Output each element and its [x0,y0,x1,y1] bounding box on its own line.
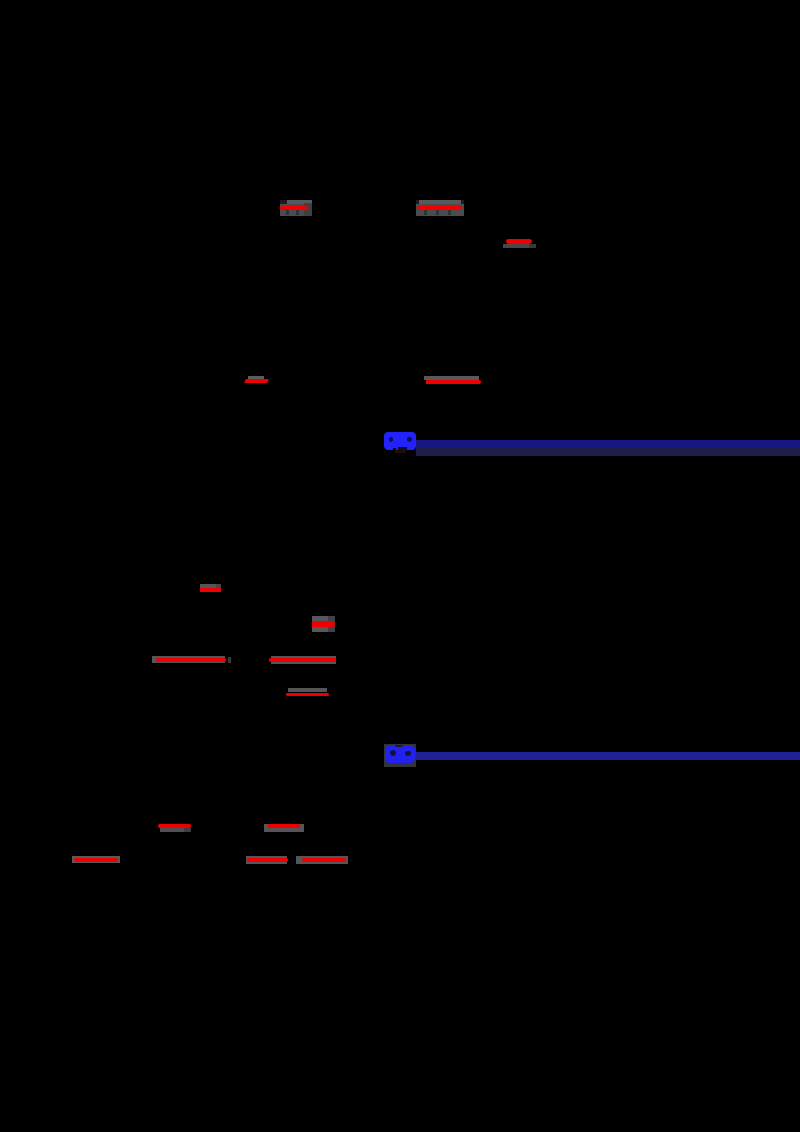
cancel line K1 [74,858,118,862]
link band D bright part [416,440,800,448]
highlight box H [288,688,328,693]
highlight box B [503,244,529,247]
cancel line K3 [302,858,347,862]
highlight box E [200,584,216,588]
cancel line J1 [158,824,192,828]
cancel line H [286,693,329,697]
cancel line C1 [244,379,269,383]
highlight box J2 [264,824,304,832]
highlight box K2 [246,856,287,864]
highlight box A2 [416,200,464,216]
highlight box G1 [152,656,225,663]
highlight box C2 [424,376,480,380]
link box I background [384,744,416,768]
cancel line A2 [417,206,462,210]
cancel line E [200,588,221,592]
highlight box J1 [160,828,185,832]
faint text under link D [395,450,406,453]
cancel line A1 [280,206,307,210]
cancel line F [312,621,335,627]
cancel line B [506,239,532,244]
cancel line C2 [426,380,481,384]
equation link D [384,432,416,450]
highlight box K3 [296,856,348,864]
highlight box A1 [280,200,312,216]
link band I [416,752,800,760]
cancel line G1 [156,658,226,662]
highlight box F [312,616,328,632]
cancel line J2 [268,824,300,828]
highlight box C1 [248,376,264,380]
link band D dim part [416,448,800,456]
highlight box G2 [271,656,336,664]
highlight box K1 [72,856,120,863]
equation link I [385,745,416,763]
cancel line K2 [247,858,288,862]
cancel line G2 [269,658,336,662]
